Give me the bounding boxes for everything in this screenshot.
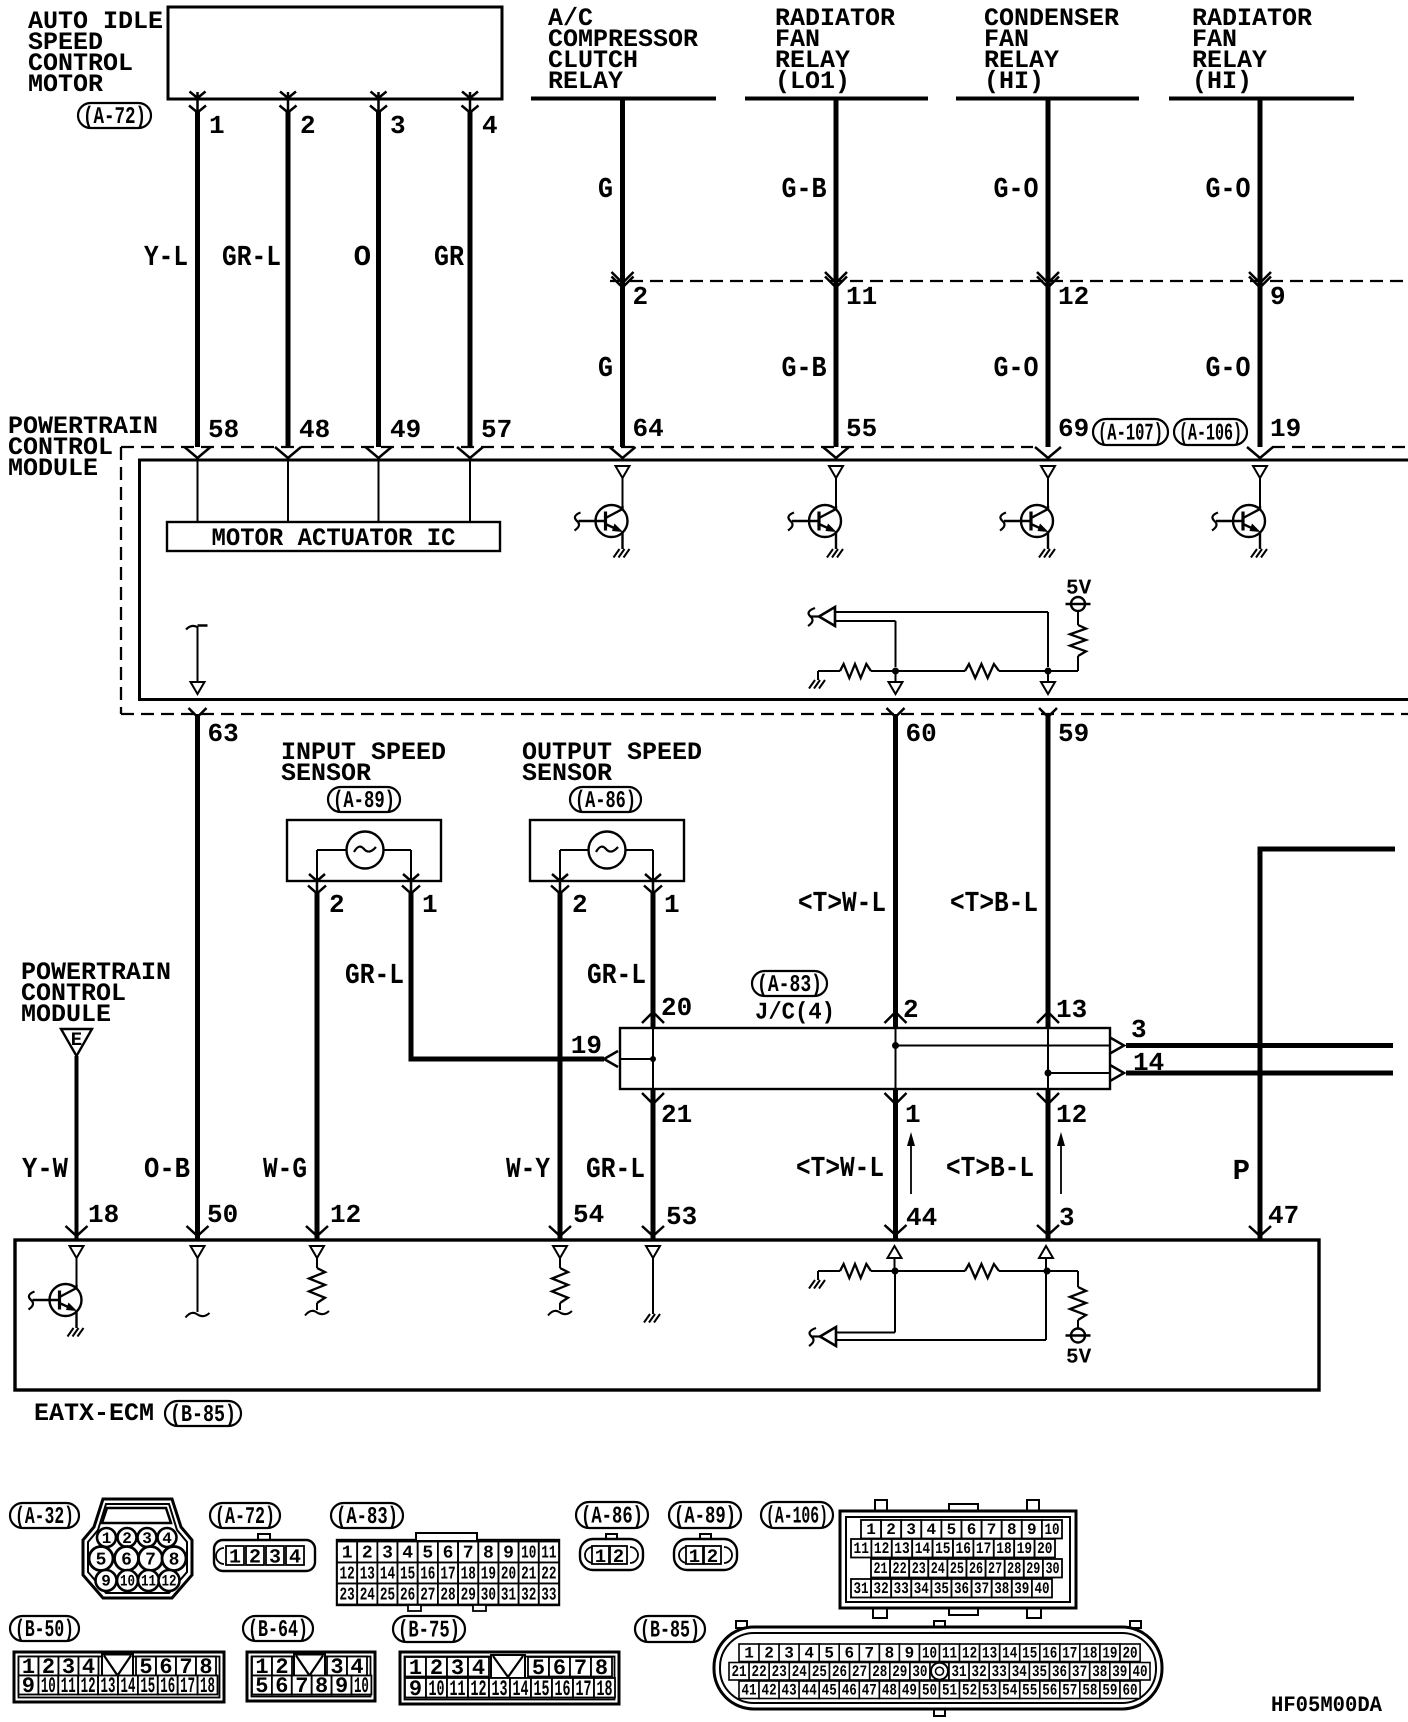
wire label G-O lower	[1206, 352, 1251, 385]
svg-text:(A-72): (A-72)	[83, 104, 146, 131]
EATX pin 44 entry triangle	[888, 1246, 902, 1271]
pin 12 J/C	[1056, 1100, 1087, 1130]
svg-text:SENSOR: SENSOR	[281, 759, 371, 788]
wire label G-O upper	[1206, 173, 1251, 206]
pin 19 at PCM	[1270, 414, 1301, 444]
condenser fan relay HI label	[984, 4, 1119, 96]
svg-text:31: 31	[853, 1580, 868, 1598]
svg-text:40: 40	[1034, 1580, 1049, 1598]
svg-text:GR-L: GR-L	[345, 959, 404, 992]
svg-text:MODULE: MODULE	[8, 454, 98, 483]
svg-text:5: 5	[824, 1645, 834, 1663]
svg-text:8: 8	[169, 1551, 180, 1571]
svg-text:O: O	[354, 241, 371, 274]
svg-text:5: 5	[422, 1544, 433, 1564]
svg-text:13: 13	[894, 1540, 909, 1558]
svg-text:48: 48	[299, 415, 330, 445]
svg-text:15: 15	[140, 1674, 155, 1699]
svg-text:18: 18	[461, 1565, 476, 1585]
svg-text:46: 46	[842, 1682, 857, 1700]
pin 47	[1268, 1201, 1299, 1231]
EATX internal bus wire	[818, 1270, 1078, 1272]
svg-text:28: 28	[1007, 1560, 1021, 1578]
connector B-64 view	[247, 1652, 375, 1701]
output sensor leads	[560, 850, 653, 881]
svg-text:1: 1	[744, 1645, 754, 1663]
pin 64 at PCM	[633, 414, 664, 444]
transistor Q4	[1212, 466, 1267, 558]
transistor Q5 EATX	[29, 1246, 84, 1337]
svg-text:4: 4	[926, 1521, 936, 1539]
auto idle speed control motor box	[168, 7, 502, 99]
svg-text:8: 8	[483, 1544, 494, 1564]
wire pin 59 to J/C pin 13	[1037, 708, 1059, 1028]
condenser fan relay HI bar	[956, 97, 1139, 101]
svg-text:12: 12	[1056, 1100, 1087, 1130]
output speed sensor AC source	[589, 832, 626, 869]
svg-text:4: 4	[482, 111, 498, 141]
svg-text:2: 2	[613, 1546, 624, 1568]
wire comparator upper to node B	[836, 612, 1048, 667]
svg-text:(A-106): (A-106)	[1179, 421, 1242, 448]
svg-text:26: 26	[400, 1586, 415, 1606]
svg-text:49: 49	[902, 1682, 917, 1700]
radiator fan relay LO1 bar	[745, 97, 928, 101]
svg-text:39: 39	[1112, 1663, 1127, 1681]
wire label W-Y	[506, 1153, 550, 1186]
wire motor pin 1 to PCM pin	[185, 92, 211, 459]
wire internal bus top	[818, 670, 1078, 672]
pin 14 J/C out	[1133, 1048, 1164, 1078]
wire relay 1 to PCM	[610, 99, 636, 459]
svg-text:26: 26	[969, 1560, 983, 1578]
wire node A to PCM pin 60	[889, 671, 903, 694]
svg-text:27: 27	[988, 1560, 1002, 1578]
connector A-83 view	[337, 1533, 559, 1611]
wire label G upper	[598, 173, 613, 206]
svg-text:39: 39	[1014, 1580, 1029, 1598]
svg-text:56: 56	[1042, 1682, 1057, 1700]
input speed sensor AC source	[347, 832, 384, 869]
svg-text:24: 24	[931, 1560, 945, 1578]
svg-text:47: 47	[1268, 1201, 1299, 1231]
pin 2	[300, 111, 316, 141]
svg-text:13: 13	[360, 1565, 375, 1585]
wire comparator EATX upper	[836, 1271, 895, 1333]
wire relay 2 to PCM	[823, 99, 849, 459]
comparator input arrow top	[808, 607, 835, 626]
svg-text:13: 13	[101, 1674, 116, 1699]
connector label B-85 inline	[165, 1401, 241, 1429]
svg-text:(A-72): (A-72)	[215, 1504, 275, 1531]
connector A-89 view	[674, 1534, 737, 1570]
svg-text:6: 6	[443, 1544, 454, 1564]
svg-text:8: 8	[885, 1645, 895, 1663]
svg-text:(A-83): (A-83)	[757, 972, 822, 999]
svg-text:17: 17	[440, 1565, 455, 1585]
output speed sensor box	[530, 820, 684, 881]
svg-text:12: 12	[340, 1565, 355, 1585]
EATX-ECM label	[34, 1399, 154, 1428]
svg-text:1: 1	[342, 1544, 353, 1564]
svg-text:2: 2	[572, 890, 588, 920]
svg-text:10: 10	[429, 1677, 445, 1702]
svg-text:6: 6	[844, 1645, 854, 1663]
svg-text:12: 12	[330, 1200, 361, 1230]
svg-text:(B-50): (B-50)	[15, 1617, 74, 1644]
svg-text:(B-64): (B-64)	[248, 1617, 308, 1644]
svg-text:19: 19	[571, 1031, 602, 1061]
svg-text:15: 15	[400, 1565, 415, 1585]
wire label O	[354, 241, 371, 274]
pin 63	[208, 719, 239, 749]
svg-text:32: 32	[874, 1580, 889, 1598]
wire pin 60 to J/C pin 2	[885, 708, 907, 1028]
svg-text:21: 21	[521, 1565, 536, 1585]
svg-text:37: 37	[1072, 1663, 1087, 1681]
svg-text:28: 28	[872, 1663, 887, 1681]
svg-text:27: 27	[420, 1586, 435, 1606]
wire label GR-L output	[587, 959, 646, 992]
svg-text:(A-86): (A-86)	[581, 1504, 643, 1531]
svg-text:36: 36	[954, 1580, 969, 1598]
svg-text:(A-107): (A-107)	[1098, 421, 1163, 448]
svg-text:52: 52	[962, 1682, 977, 1700]
svg-text:1: 1	[422, 890, 438, 920]
svg-text:(A-32): (A-32)	[15, 1504, 74, 1531]
svg-text:7: 7	[463, 1544, 474, 1564]
svg-text:31: 31	[501, 1586, 516, 1606]
svg-text:11: 11	[141, 1573, 156, 1591]
pin 60	[906, 719, 937, 749]
svg-text:HF05M00DA: HF05M00DA	[1271, 1693, 1383, 1718]
internal stub pin 50	[186, 1246, 210, 1318]
svg-text:1: 1	[595, 1546, 606, 1568]
svg-text:53: 53	[666, 1202, 697, 1232]
pin 44	[906, 1203, 937, 1233]
pin 21	[661, 1100, 692, 1130]
svg-text:30: 30	[912, 1663, 927, 1681]
ground internal EATX left	[809, 1271, 825, 1289]
connector label A-86 top	[570, 787, 641, 815]
svg-text:41: 41	[741, 1682, 756, 1700]
svg-text:38: 38	[994, 1580, 1009, 1598]
svg-text:18: 18	[996, 1540, 1011, 1558]
svg-text:58: 58	[208, 415, 239, 445]
resistor R2 top	[965, 664, 999, 678]
junction connector J/C(4) label	[755, 1000, 835, 1027]
wire output sensor 2 to EATX 54 (W-Y)	[549, 874, 571, 1240]
svg-text:34: 34	[914, 1580, 929, 1598]
svg-text:O-B: O-B	[144, 1153, 190, 1186]
svg-text:5: 5	[96, 1551, 107, 1571]
svg-text:G-B: G-B	[782, 173, 827, 206]
wire label G-O upper	[994, 173, 1039, 206]
connector label A-89 bottom	[669, 1502, 741, 1531]
svg-text:Y-L: Y-L	[144, 241, 188, 274]
wire label O-B	[144, 1153, 190, 1186]
svg-text:12: 12	[162, 1573, 177, 1591]
svg-text:9: 9	[1270, 282, 1286, 312]
wire label GR-L	[222, 241, 281, 274]
svg-text:20: 20	[1037, 1540, 1052, 1558]
ground pin 53 EATX	[644, 1246, 660, 1323]
svg-text:13: 13	[492, 1677, 508, 1702]
PCM dashed border	[121, 447, 1408, 714]
radiator fan relay HI label	[1192, 4, 1312, 96]
svg-text:33: 33	[992, 1663, 1007, 1681]
pin 2 J/C	[903, 995, 919, 1025]
wire label <T>W-L lower	[796, 1152, 884, 1185]
svg-text:32: 32	[972, 1663, 987, 1681]
pin 69 at PCM	[1058, 414, 1089, 444]
svg-text:11: 11	[854, 1540, 869, 1558]
svg-text:6: 6	[967, 1521, 977, 1539]
junction connector J/C(4) box	[620, 1028, 1110, 1089]
svg-text:19: 19	[1017, 1540, 1032, 1558]
svg-text:16: 16	[420, 1565, 435, 1585]
connector label B-64	[243, 1616, 313, 1644]
svg-text:12: 12	[874, 1540, 889, 1558]
connector A-86 view	[580, 1534, 643, 1570]
svg-text:(A-89): (A-89)	[674, 1504, 736, 1531]
svg-text:8: 8	[1007, 1521, 1017, 1539]
wire label Y-L	[144, 241, 188, 274]
wire E to EATX pin 18 (Y-W)	[66, 1056, 88, 1240]
svg-text:6: 6	[121, 1551, 132, 1571]
svg-text:12: 12	[471, 1677, 487, 1702]
svg-text:(B-85): (B-85)	[170, 1402, 236, 1429]
svg-text:2: 2	[886, 1521, 896, 1539]
svg-text:9: 9	[905, 1645, 915, 1663]
svg-text:21: 21	[731, 1663, 746, 1681]
svg-text:17: 17	[1062, 1645, 1077, 1663]
transistor Q3	[1000, 466, 1055, 558]
svg-text:G-O: G-O	[994, 173, 1039, 206]
pin 2 at harness connector	[633, 282, 649, 312]
powertrain control module label	[8, 412, 158, 483]
svg-text:19: 19	[1102, 1645, 1117, 1663]
svg-text:10: 10	[922, 1645, 937, 1663]
svg-text:2: 2	[764, 1645, 774, 1663]
connector label B-50	[10, 1616, 79, 1644]
svg-text:35: 35	[1032, 1663, 1047, 1681]
pin 3 J/C out	[1131, 1015, 1147, 1045]
wire label GR-L lower	[586, 1153, 645, 1186]
svg-text:12: 12	[81, 1674, 96, 1699]
auto idle speed control motor label	[28, 7, 163, 99]
svg-text:59: 59	[1058, 719, 1089, 749]
wire P with elbow to EATX 47	[1249, 847, 1395, 1241]
svg-text:11: 11	[846, 282, 877, 312]
svg-text:16: 16	[1042, 1645, 1057, 1663]
svg-text:(B-85): (B-85)	[640, 1618, 700, 1645]
svg-text:57: 57	[1062, 1682, 1077, 1700]
svg-text:15: 15	[1022, 1645, 1037, 1663]
svg-text:12: 12	[1058, 282, 1089, 312]
svg-text:GR-L: GR-L	[222, 241, 281, 274]
connector B-75 view	[400, 1652, 619, 1704]
wire J/C 1 to EATX 44	[885, 1089, 907, 1240]
svg-text:2: 2	[633, 282, 649, 312]
svg-text:13: 13	[982, 1645, 997, 1663]
svg-text:15: 15	[534, 1677, 550, 1702]
ground internal top-left	[809, 671, 825, 689]
wire motor pin 2 to PCM pin	[275, 92, 301, 459]
J/C internal line W-L	[892, 1028, 1110, 1089]
connector label B-75	[393, 1616, 465, 1645]
svg-text:21: 21	[661, 1100, 692, 1130]
svg-text:31: 31	[951, 1663, 966, 1681]
svg-text:29: 29	[1026, 1560, 1040, 1578]
svg-text:45: 45	[822, 1682, 837, 1700]
input speed sensor box	[287, 820, 441, 881]
svg-text:49: 49	[390, 415, 421, 445]
resistor R5 EATX	[965, 1264, 999, 1278]
input speed sensor label	[281, 738, 446, 788]
svg-text:(A-86): (A-86)	[575, 788, 636, 815]
J/C internal line B-L	[1045, 1028, 1111, 1089]
svg-text:34: 34	[1012, 1663, 1027, 1681]
harness connector dashed line	[610, 280, 1408, 282]
ground triangle E	[61, 1029, 92, 1056]
svg-text:14: 14	[121, 1674, 136, 1699]
svg-text:26: 26	[832, 1663, 847, 1681]
svg-text:SENSOR: SENSOR	[522, 759, 612, 788]
svg-text:17: 17	[576, 1677, 592, 1702]
pin 4	[482, 111, 498, 141]
svg-text:53: 53	[982, 1682, 997, 1700]
svg-text:8: 8	[315, 1674, 328, 1699]
node EATX B	[1044, 1268, 1051, 1275]
wire comparator lower to node A	[836, 621, 896, 667]
A/C compressor clutch relay bar	[531, 97, 716, 101]
pin 3	[390, 111, 406, 141]
svg-text:58: 58	[1082, 1682, 1097, 1700]
flow arrow up near pin 3	[1057, 1132, 1065, 1194]
connector label A-83 bottom	[331, 1503, 403, 1531]
svg-text:42: 42	[762, 1682, 777, 1700]
resistor R6 EATX pullup	[1070, 1271, 1086, 1329]
wire motor pin 4 to PCM pin	[457, 92, 483, 459]
svg-text:9: 9	[335, 1674, 348, 1699]
A/C compressor clutch relay label	[548, 4, 698, 96]
svg-text:10: 10	[521, 1544, 536, 1564]
svg-text:40: 40	[1132, 1663, 1147, 1681]
svg-text:MODULE: MODULE	[21, 1000, 111, 1029]
svg-text:10: 10	[1044, 1521, 1059, 1539]
svg-text:5: 5	[947, 1521, 957, 1539]
connector A-72 view	[214, 1534, 315, 1571]
resistor R3 pullup top	[1070, 611, 1086, 672]
svg-text:33: 33	[541, 1586, 556, 1606]
wire label <T>B-L lower	[946, 1152, 1034, 1185]
svg-text:EATX-ECM: EATX-ECM	[34, 1399, 154, 1428]
svg-text:(HI): (HI)	[984, 67, 1044, 96]
input sensor pin 1	[422, 890, 438, 920]
svg-text:16: 16	[555, 1677, 571, 1702]
pin 12 at harness connector	[1058, 282, 1089, 312]
svg-text:16: 16	[956, 1540, 971, 1558]
pin 57	[481, 415, 512, 445]
svg-text:P: P	[1233, 1155, 1250, 1188]
svg-text:20: 20	[501, 1565, 516, 1585]
svg-text:Y-W: Y-W	[22, 1153, 69, 1186]
svg-text:43: 43	[782, 1682, 797, 1700]
pin 1	[209, 111, 225, 141]
svg-text:17: 17	[976, 1540, 991, 1558]
svg-text:(LO1): (LO1)	[775, 67, 850, 96]
svg-text:1: 1	[229, 1547, 241, 1570]
wire label G-B lower	[782, 352, 827, 385]
svg-text:1: 1	[866, 1521, 876, 1539]
pin 12 EATX	[330, 1200, 361, 1230]
svg-text:18: 18	[597, 1677, 613, 1702]
svg-text:14: 14	[380, 1565, 395, 1585]
svg-text:22: 22	[752, 1663, 767, 1681]
svg-text:4: 4	[162, 1530, 172, 1548]
svg-text:4: 4	[289, 1547, 301, 1570]
pin 50	[207, 1200, 238, 1230]
svg-text:12: 12	[962, 1645, 977, 1663]
svg-text:14: 14	[513, 1677, 529, 1702]
svg-text:2: 2	[362, 1544, 373, 1564]
svg-text:2: 2	[300, 111, 316, 141]
svg-text:GR: GR	[434, 241, 465, 274]
svg-text:(B-75): (B-75)	[398, 1618, 460, 1645]
output sensor pin 2	[572, 890, 588, 920]
connector label A-72	[78, 103, 151, 131]
pin 53	[666, 1202, 697, 1232]
flow arrow up near pin 44	[907, 1132, 915, 1194]
wire label W-G	[263, 1153, 307, 1186]
svg-text:51: 51	[942, 1682, 957, 1700]
svg-text:11: 11	[942, 1645, 957, 1663]
connector label A-72 bottom	[210, 1503, 280, 1531]
svg-text:G-B: G-B	[782, 352, 827, 385]
svg-text:5: 5	[255, 1674, 268, 1699]
wire J/C pin 3 out	[1110, 1038, 1393, 1054]
svg-text:30: 30	[1045, 1560, 1059, 1578]
pin 18	[88, 1200, 119, 1230]
svg-text:55: 55	[1022, 1682, 1037, 1700]
svg-text:9: 9	[101, 1573, 111, 1591]
svg-text:9: 9	[22, 1674, 35, 1699]
pin 55 at PCM	[846, 414, 877, 444]
svg-text:9: 9	[409, 1677, 422, 1702]
wire label GR-L input	[345, 959, 404, 992]
svg-text:64: 64	[633, 414, 664, 444]
motor actuator IC box	[167, 522, 500, 553]
svg-text:9: 9	[503, 1544, 514, 1564]
svg-text:29: 29	[461, 1586, 476, 1606]
svg-text:60: 60	[906, 719, 937, 749]
svg-text:63: 63	[208, 719, 239, 749]
svg-text:37: 37	[974, 1580, 989, 1598]
node top A	[892, 668, 899, 675]
input sensor leads	[317, 850, 411, 881]
pin 3 EATX	[1059, 1203, 1075, 1233]
connector label A-83 top	[752, 971, 827, 999]
wire label <T>B-L upper	[950, 887, 1038, 920]
wire relay 4 to PCM	[1247, 99, 1273, 459]
svg-text:18: 18	[88, 1200, 119, 1230]
wire label G-O lower	[994, 352, 1039, 385]
svg-text:14: 14	[915, 1540, 931, 1558]
svg-text:57: 57	[481, 415, 512, 445]
svg-text:22: 22	[893, 1560, 907, 1578]
connector label B-85 bottom	[635, 1616, 705, 1645]
